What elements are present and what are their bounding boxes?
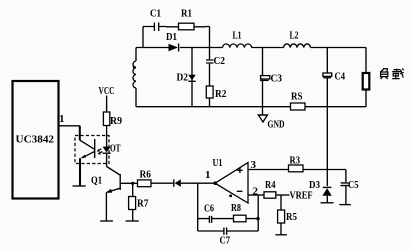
wire top rail secondary [136,47,366,49]
svg-text:1: 1 [59,113,65,125]
wire pin2 [248,194,264,196]
diode D2 [188,75,195,81]
svg-text:VREF: VREF [290,190,313,202]
resistor R3 [289,165,304,172]
svg-text:D1: D1 [166,31,177,43]
op-amp U1 [215,163,248,203]
ground C5 [339,204,351,206]
svg-text:L2: L2 [290,30,299,42]
svg-text:D3: D3 [309,179,320,191]
wire C3 branch [262,48,264,107]
ground D3 [321,202,334,204]
svg-text:UC3842: UC3842 [16,134,55,146]
resistor R8 [234,215,247,222]
capacitor C3 [261,76,270,79]
IC UC3842 U2 [13,81,59,199]
diode D3 zener [326,170,328,187]
wire C2 R2 branch [209,48,211,107]
wire C4 sense branch [326,48,328,170]
svg-text:R8: R8 [231,202,241,214]
capacitor C4 [323,73,332,76]
resistor R1 [179,23,195,30]
svg-text:C4: C4 [335,71,346,83]
resistor R6 [138,180,152,187]
ground GND [262,107,264,115]
svg-text:R9: R9 [110,115,122,127]
svg-text:L1: L1 [233,30,242,42]
load 负载 [365,48,367,107]
svg-text:R5: R5 [286,211,297,223]
wire Q1 emitter to ground [105,192,107,220]
ground opto emitter [73,185,86,187]
capacitor C2 [206,60,214,63]
wire R7 branch [132,183,134,220]
junction dot U1 output [214,181,218,185]
junction dot comp node [256,217,259,220]
svg-text:R3: R3 [290,155,301,167]
optocoupler OT dashed box [75,136,109,164]
wire D2 branch [191,48,193,107]
ground Q1 [100,220,113,222]
transformer polarity dot [133,66,136,69]
capacitor C7 [224,228,227,235]
wire R4 to VREF [276,194,290,196]
svg-text:OT: OT [110,143,121,155]
stray dot [229,195,232,198]
resistor R4 [264,192,276,198]
svg-text:RS: RS [291,91,303,103]
wire thick R6 to diode [151,182,165,184]
wire diode to U1 output [181,182,215,184]
diode D1 [169,44,179,51]
svg-text:D2: D2 [177,72,189,84]
wire pin1 [59,125,80,127]
resistor R7 [129,197,136,210]
wire pin3 [248,169,289,171]
svg-text:VCC: VCC [99,85,115,97]
inductor L1 [223,44,252,48]
wire VCC to R9 [106,96,108,113]
svg-text:C5: C5 [348,179,359,191]
compensation network wires [198,183,259,231]
svg-text:3: 3 [251,159,257,171]
resistor R9 [103,112,109,126]
svg-text:C6: C6 [204,203,214,215]
junction dot base node [131,182,134,185]
wire R5 branch [280,195,282,235]
capacitor C5 [345,170,347,205]
svg-text:Q1: Q1 [91,175,102,187]
ground R5 [275,234,286,236]
svg-text:U1: U1 [213,157,223,169]
wire Q1 base to node [121,182,138,184]
svg-text:1: 1 [205,169,211,181]
svg-text:R4: R4 [265,179,276,191]
capacitor C6 [209,216,211,223]
svg-text:C2: C2 [214,55,226,67]
svg-text:R1: R1 [181,8,192,20]
resistor R2 [206,86,213,98]
svg-text:R7: R7 [137,198,149,210]
svg-text:R2: R2 [215,88,227,100]
wire bottom rail [136,106,366,108]
svg-text:R6: R6 [140,169,152,181]
wire R3 to node [303,169,346,171]
wire R9 to LED [106,126,108,147]
svg-text:C1: C1 [150,8,161,20]
svg-text:GND: GND [268,119,285,131]
wire LED to Q1 collector [106,154,108,167]
transformer secondary winding T1 [135,48,137,107]
svg-text:C7: C7 [220,235,231,247]
wire thick segments [166,26,206,28]
capacitor C1 [154,23,158,32]
wire snubber branch [143,27,210,48]
svg-text:C3: C3 [271,73,283,85]
diode D4 (to op-amp) [173,179,175,186]
transistor Q1 [107,167,120,176]
LED of optocoupler [103,147,111,153]
phototransistor [94,139,96,158]
resistor R5 [278,210,285,223]
light arrows [98,149,103,154]
inductor L2 [284,44,311,48]
ground R7 [126,220,139,222]
resistor RS [291,103,306,110]
wire opto left vertical [79,126,81,186]
